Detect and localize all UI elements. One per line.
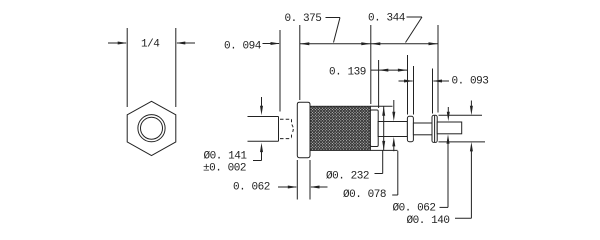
svg-text:0. 094: 0. 094 <box>224 41 262 53</box>
svg-text:1/4: 1/4 <box>141 39 160 51</box>
svg-text:Ø0. 140: Ø0. 140 <box>407 215 450 227</box>
svg-text:0. 375: 0. 375 <box>285 13 322 25</box>
svg-text:Ø0. 141: Ø0. 141 <box>204 150 248 162</box>
svg-text:Ø0. 232: Ø0. 232 <box>326 171 369 183</box>
svg-text:0. 093: 0. 093 <box>452 76 489 88</box>
svg-text:0. 062: 0. 062 <box>233 182 270 194</box>
svg-text:±0. 002: ±0. 002 <box>203 163 246 175</box>
svg-text:0. 344: 0. 344 <box>368 13 406 25</box>
svg-text:Ø0. 078: Ø0. 078 <box>343 189 386 201</box>
svg-text:0. 139: 0. 139 <box>329 67 366 79</box>
svg-text:Ø0. 062: Ø0. 062 <box>393 203 436 215</box>
